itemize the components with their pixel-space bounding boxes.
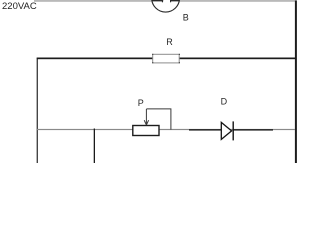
svg-text:B: B	[183, 13, 189, 23]
wire R line right	[179, 58, 296, 60]
svg-text:P: P	[138, 98, 144, 108]
diode D triangle	[221, 122, 231, 139]
wire right vertical	[295, 0, 297, 163]
potentiometer P body	[133, 126, 159, 136]
wire bottom gray	[37, 129, 295, 130]
wire mid vertical junction	[94, 129, 95, 164]
lamp B circle (cropped at top)	[152, 0, 180, 12]
wire bottom dark before diode	[189, 129, 221, 131]
wiper loop wire	[146, 109, 171, 130]
diode D cathode bar	[233, 121, 234, 140]
wire bottom dark after diode	[234, 129, 274, 131]
resistor R corner dots	[152, 54, 153, 55]
potentiometer wiper arrow	[144, 109, 148, 125]
resistor R	[153, 54, 180, 63]
svg-text:R: R	[166, 37, 173, 47]
wire top left (220VAC feed)	[34, 0, 152, 1]
lamp B top segments (cropped)	[152, 0, 164, 1]
wire left vertical	[37, 58, 38, 163]
label 220VAC	[2, 1, 37, 12]
wire top right	[180, 0, 296, 1]
svg-text:D: D	[221, 97, 228, 107]
wire R line left	[37, 58, 153, 60]
